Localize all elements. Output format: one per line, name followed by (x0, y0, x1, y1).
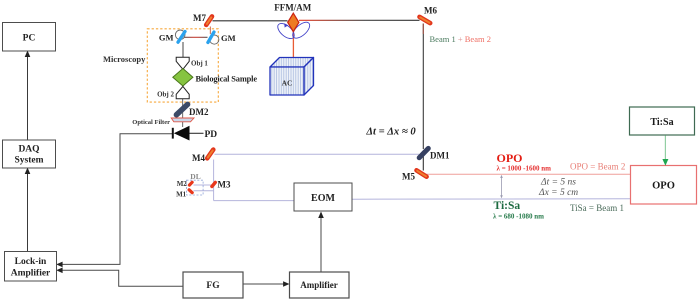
svg-text:Δt = Δx ≈ 0: Δt = Δx ≈ 0 (365, 127, 416, 138)
wire Amplifier to EOM (320, 215, 322, 272)
optical filter (171, 118, 194, 122)
svg-text:Beam 1 + Beam 2: Beam 1 + Beam 2 (430, 34, 491, 44)
mirror M1 (189, 190, 192, 193)
mirror M7 (193, 13, 212, 25)
wire beam M1 output (194, 190, 214, 192)
wire M7 down to GM (209, 27, 211, 35)
wire FG to Amplifier (243, 283, 286, 285)
svg-text:Amplifier: Amplifier (11, 269, 51, 279)
box FG (183, 272, 243, 298)
galvo mirror GM left (178, 32, 185, 43)
FFM/AM scan arcs (275, 19, 312, 41)
svg-text:System: System (14, 156, 43, 166)
arrow Ti:Sa to OPO (green) (664, 136, 666, 162)
svg-text:M5: M5 (402, 172, 415, 182)
wire FFM/AM to M6 (red fading to black) (299, 19, 420, 21)
mirror M4 (192, 150, 213, 163)
wire M7 to FFM/AM (213, 20, 288, 22)
svg-text:DL: DL (190, 172, 200, 181)
box Ti:Sa (green) (630, 107, 695, 135)
wire FFM/AM down to AC (red) (292, 30, 294, 63)
svg-text:Lock-in: Lock-in (15, 257, 47, 267)
svg-text:PD: PD (205, 130, 218, 140)
svg-text:Ti:Sa: Ti:Sa (650, 117, 673, 128)
svg-text:Optical Filter: Optical Filter (132, 119, 170, 126)
wire GM to GM (184, 36, 208, 38)
svg-text:GM: GM (221, 33, 236, 43)
svg-text:Δt = 5 ns: Δt = 5 ns (540, 178, 576, 188)
dimension line between beams (501, 176, 503, 197)
FFM/AM diamond (288, 13, 299, 31)
wire beam M2 to M3 (194, 184, 212, 186)
svg-text:DAQ: DAQ (18, 145, 39, 155)
svg-text:M3: M3 (218, 180, 231, 190)
wire DM1 to M5 (422, 157, 424, 171)
box EOM (294, 183, 352, 211)
svg-text:DM2: DM2 (189, 107, 209, 117)
svg-text:M2: M2 (177, 180, 188, 188)
wire Obj 2 down through DM2 and filter to PD (182, 99, 184, 127)
wire PD to Lock-in (60, 134, 173, 265)
svg-text:λ = 1000 -1600 nm: λ = 1000 -1600 nm (497, 165, 552, 173)
svg-text:Δx = 5 cm: Δx = 5 cm (538, 188, 578, 198)
wire beam to EOM left (214, 200, 294, 202)
wire DAQ to PC (27, 54, 29, 140)
dashed box Microscopy (147, 29, 218, 102)
mirror M6 (420, 6, 438, 24)
svg-text:Obj 2: Obj 2 (157, 91, 174, 99)
galvo mirror GM right (208, 32, 214, 43)
svg-text:FFM/AM: FFM/AM (274, 3, 311, 13)
box DAQ System (3, 140, 56, 168)
svg-text:PC: PC (23, 34, 36, 44)
biological sample diamond (173, 69, 193, 87)
dichroic DM2 (176, 104, 187, 114)
svg-text:GM: GM (159, 33, 174, 43)
wire beam M4 down to delay line (lavender vertical) (213, 160, 215, 201)
svg-text:M4: M4 (192, 153, 205, 163)
box PC (3, 23, 56, 52)
FFM/AM arc arrowhead (284, 23, 288, 27)
wire left GM down to Obj 1 (182, 42, 184, 57)
svg-text:Obj 1: Obj 1 (191, 60, 208, 68)
wire beam EOM to OPO (TiSa beam) (352, 198, 630, 200)
svg-text:λ = 680 -1080 nm: λ = 680 -1080 nm (493, 213, 544, 221)
svg-text:Biological Sample: Biological Sample (196, 74, 258, 83)
svg-text:OPO: OPO (652, 181, 675, 192)
objective Obj 2 (176, 86, 189, 98)
svg-text:FG: FG (206, 281, 220, 291)
svg-text:Amplifier: Amplifier (300, 280, 338, 290)
AC cube (270, 58, 314, 96)
wire beam M4 to DM1 (lavender) (215, 153, 420, 155)
wire Lock-in to DAQ (27, 171, 29, 251)
svg-text:M6: M6 (424, 6, 437, 16)
mirror M3 (212, 182, 215, 186)
svg-text:OPO: OPO (497, 151, 523, 165)
box OPO (red) (631, 166, 697, 205)
objective Obj 1 (176, 57, 189, 69)
galvo circle left (175, 30, 185, 40)
mirror M5 (402, 170, 427, 181)
box Amplifier (290, 272, 350, 298)
svg-text:Ti:Sa: Ti:Sa (494, 200, 521, 212)
box Lock-in Amplifier (5, 252, 57, 282)
svg-text:DM1: DM1 (430, 151, 450, 161)
wire M6 down to DM1 (422, 24, 424, 150)
svg-text:EOM: EOM (311, 193, 335, 204)
svg-text:Microscopy: Microscopy (103, 54, 146, 64)
wire FG to Lock-in reference (60, 270, 183, 286)
svg-text:M7: M7 (193, 13, 206, 23)
svg-text:TiSa = Beam 1: TiSa = Beam 1 (570, 203, 624, 213)
dashed box DL (187, 180, 204, 195)
photodiode PD (172, 128, 174, 139)
galvo circle right (210, 35, 219, 44)
svg-text:OPO = Beam 2: OPO = Beam 2 (570, 162, 625, 172)
svg-text:AC: AC (282, 78, 293, 87)
svg-text:M1: M1 (176, 190, 187, 198)
wire beam OPO to M5 (red) (426, 173, 630, 175)
dichroic DM1 (419, 148, 428, 157)
mirror M2 (189, 182, 192, 185)
